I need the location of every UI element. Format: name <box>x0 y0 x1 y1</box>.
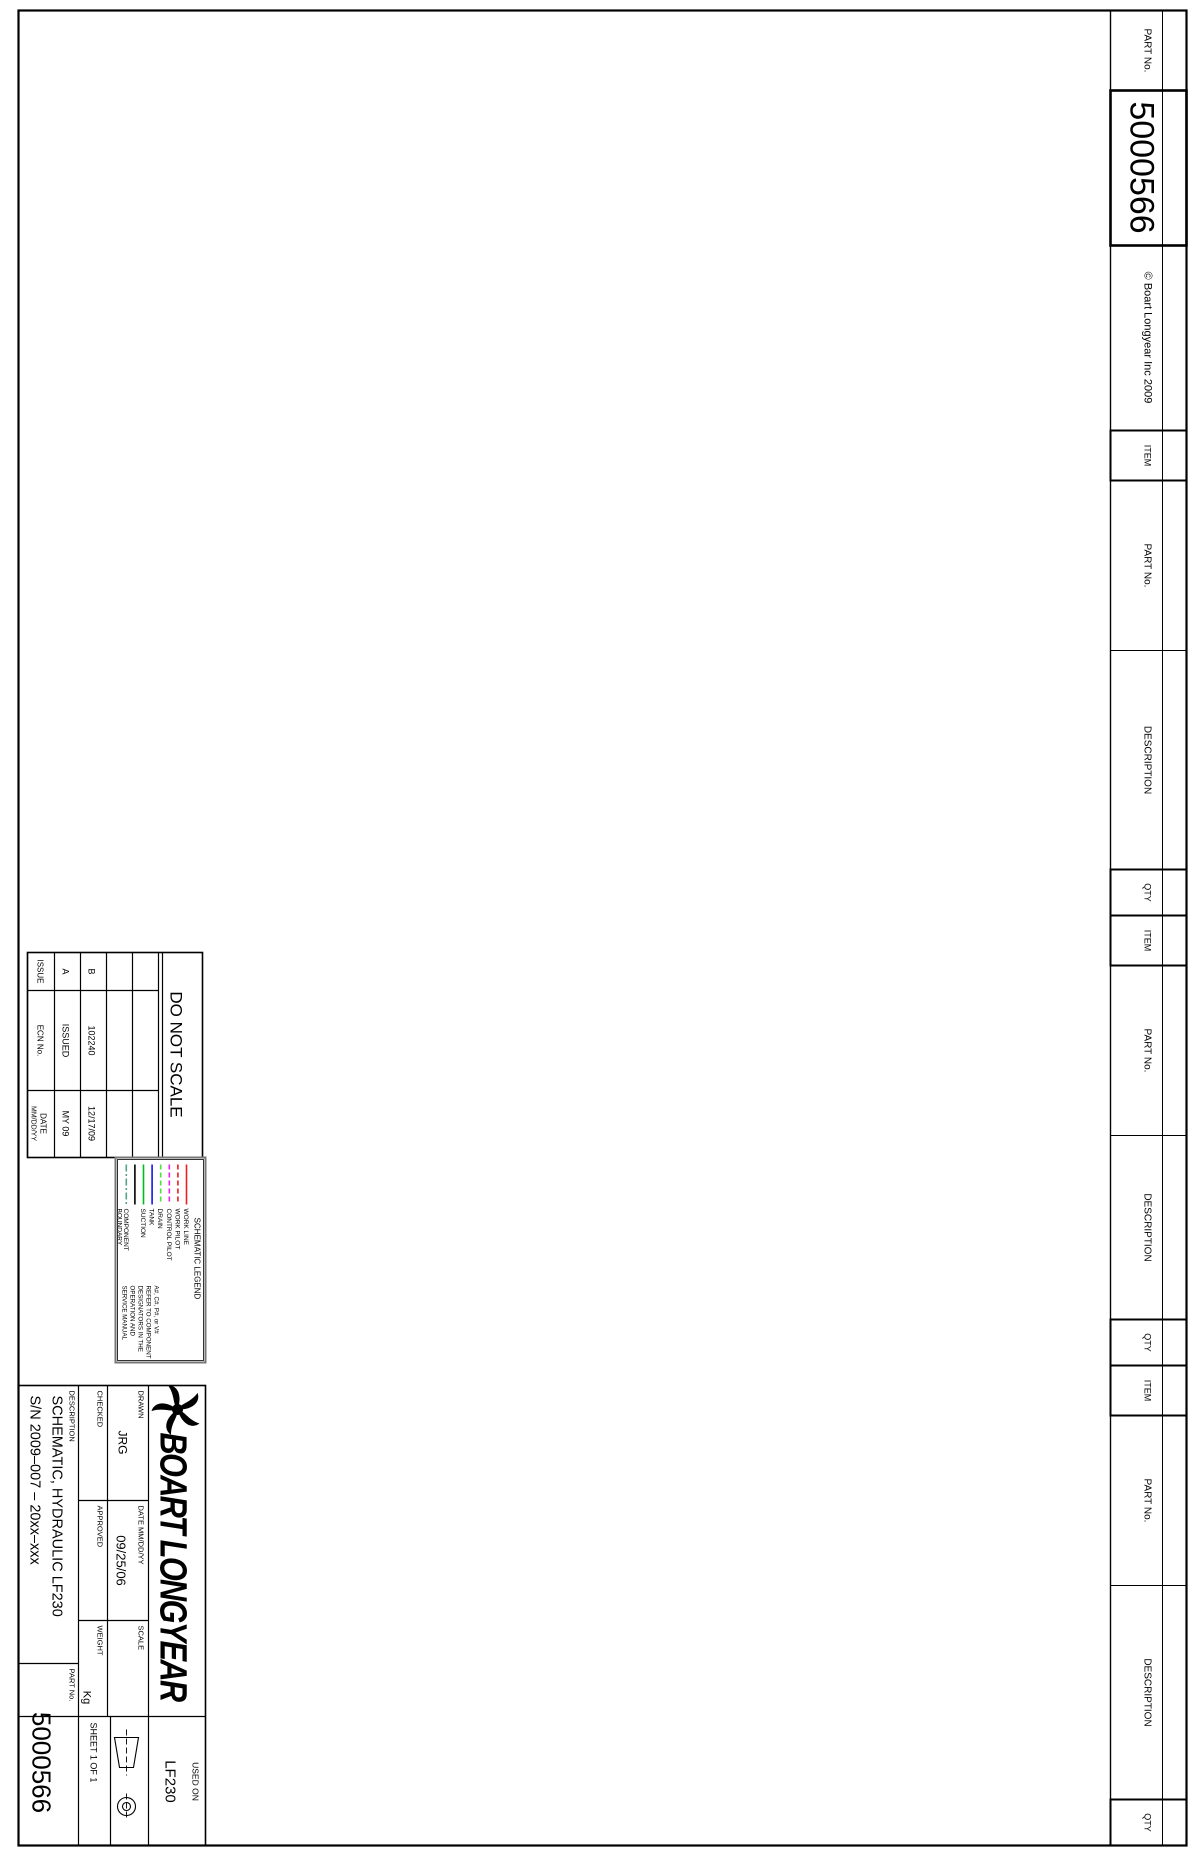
svg-text:PART No.: PART No. <box>1141 1478 1152 1522</box>
svg-text:DRAIN: DRAIN <box>156 1208 163 1229</box>
svg-text:CONTROL PILOT: CONTROL PILOT <box>164 1208 171 1260</box>
revision table and DO NOT SCALE <box>27 952 202 1157</box>
svg-text:ISSUED: ISSUED <box>60 1023 70 1057</box>
svg-text:DO NOT SCALE: DO NOT SCALE <box>166 991 185 1117</box>
svg-text:12/17/09: 12/17/09 <box>86 1105 96 1140</box>
svg-text:QTY: QTY <box>1142 883 1152 902</box>
Boart Longyear logo <box>150 1383 200 1702</box>
svg-text:ITEM: ITEM <box>1142 444 1152 466</box>
svg-text:DATE MM/DD/YY: DATE MM/DD/YY <box>136 1505 145 1564</box>
svg-text:USED ON: USED ON <box>190 1762 200 1801</box>
svg-text:B: B <box>86 968 96 974</box>
svg-text:TANK: TANK <box>147 1208 154 1226</box>
svg-text:SCHEMATIC LEGEND: SCHEMATIC LEGEND <box>192 1217 201 1299</box>
svg-text:DESCRIPTION: DESCRIPTION <box>1141 1658 1152 1726</box>
svg-text:ISSUE: ISSUE <box>35 959 44 983</box>
svg-text:ITEM: ITEM <box>1142 929 1152 951</box>
svg-text:MM/DD/YY: MM/DD/YY <box>29 1106 36 1141</box>
schematic legend <box>115 1157 205 1362</box>
svg-text:PART No.: PART No. <box>67 1668 76 1701</box>
svg-text:DESIGNATORS IN THE: DESIGNATORS IN THE <box>136 1285 143 1351</box>
svg-text:PART No.: PART No. <box>1141 28 1152 72</box>
svg-text:102240: 102240 <box>86 1025 96 1055</box>
svg-text:SERVICE MANUAL: SERVICE MANUAL <box>120 1285 127 1340</box>
svg-text:PART No.: PART No. <box>1141 543 1152 587</box>
svg-text:PART No.: PART No. <box>1141 1028 1152 1072</box>
svg-text:APPROVED: APPROVED <box>95 1505 104 1547</box>
svg-text:MY 09: MY 09 <box>60 1110 70 1136</box>
svg-text:WORK PILOT: WORK PILOT <box>173 1208 180 1249</box>
svg-text:BOUNDARY: BOUNDARY <box>115 1208 122 1245</box>
svg-text:QTY: QTY <box>1142 1813 1152 1832</box>
svg-text:WORK LINE: WORK LINE <box>182 1208 189 1245</box>
svg-text:A#, C#, P#, or V#: A#, C#, P#, or V# <box>152 1285 159 1334</box>
svg-text:WEIGHT: WEIGHT <box>95 1625 104 1655</box>
svg-text:REFER TO COMPONENT: REFER TO COMPONENT <box>144 1285 151 1358</box>
svg-text:JRG: JRG <box>115 1430 129 1454</box>
svg-text:LF230: LF230 <box>161 1760 178 1803</box>
svg-text:DESCRIPTION: DESCRIPTION <box>1141 725 1152 793</box>
third angle projection symbol <box>114 1729 138 1819</box>
svg-text:BOART LONGYEAR: BOART LONGYEAR <box>151 1432 193 1702</box>
svg-text:OPERATION AND: OPERATION AND <box>128 1285 135 1336</box>
svg-text:5000566: 5000566 <box>1122 101 1160 233</box>
svg-text:SHEET 1 OF 1: SHEET 1 OF 1 <box>88 1722 98 1782</box>
svg-text:SUCTION: SUCTION <box>139 1208 146 1238</box>
svg-text:SCALE: SCALE <box>136 1625 145 1650</box>
svg-text:DESCRIPTION: DESCRIPTION <box>67 1390 76 1441</box>
svg-text:DRAWN: DRAWN <box>136 1390 145 1418</box>
svg-text:A: A <box>60 968 70 974</box>
svg-text:DESCRIPTION: DESCRIPTION <box>1141 1193 1152 1261</box>
svg-text:DATE: DATE <box>38 1113 47 1134</box>
svg-text:CHECKED: CHECKED <box>95 1390 104 1427</box>
parts list header strip <box>1110 10 1186 1845</box>
title block <box>18 1385 205 1845</box>
svg-text:Kg: Kg <box>80 1690 92 1703</box>
svg-text:QTY: QTY <box>1142 1333 1152 1352</box>
svg-text:ECN No.: ECN No. <box>35 1024 44 1056</box>
svg-text:09/25/06: 09/25/06 <box>113 1535 128 1586</box>
svg-text:© Boart Longyear Inc 2009: © Boart Longyear Inc 2009 <box>1141 271 1153 403</box>
svg-text:S/N 2009–007 – 20xx–xxx: S/N 2009–007 – 20xx–xxx <box>26 1395 42 1565</box>
svg-text:SCHEMATIC, HYDRAULIC LF230: SCHEMATIC, HYDRAULIC LF230 <box>48 1395 64 1616</box>
svg-text:ITEM: ITEM <box>1142 1379 1152 1401</box>
svg-text:5000566: 5000566 <box>26 1711 56 1812</box>
